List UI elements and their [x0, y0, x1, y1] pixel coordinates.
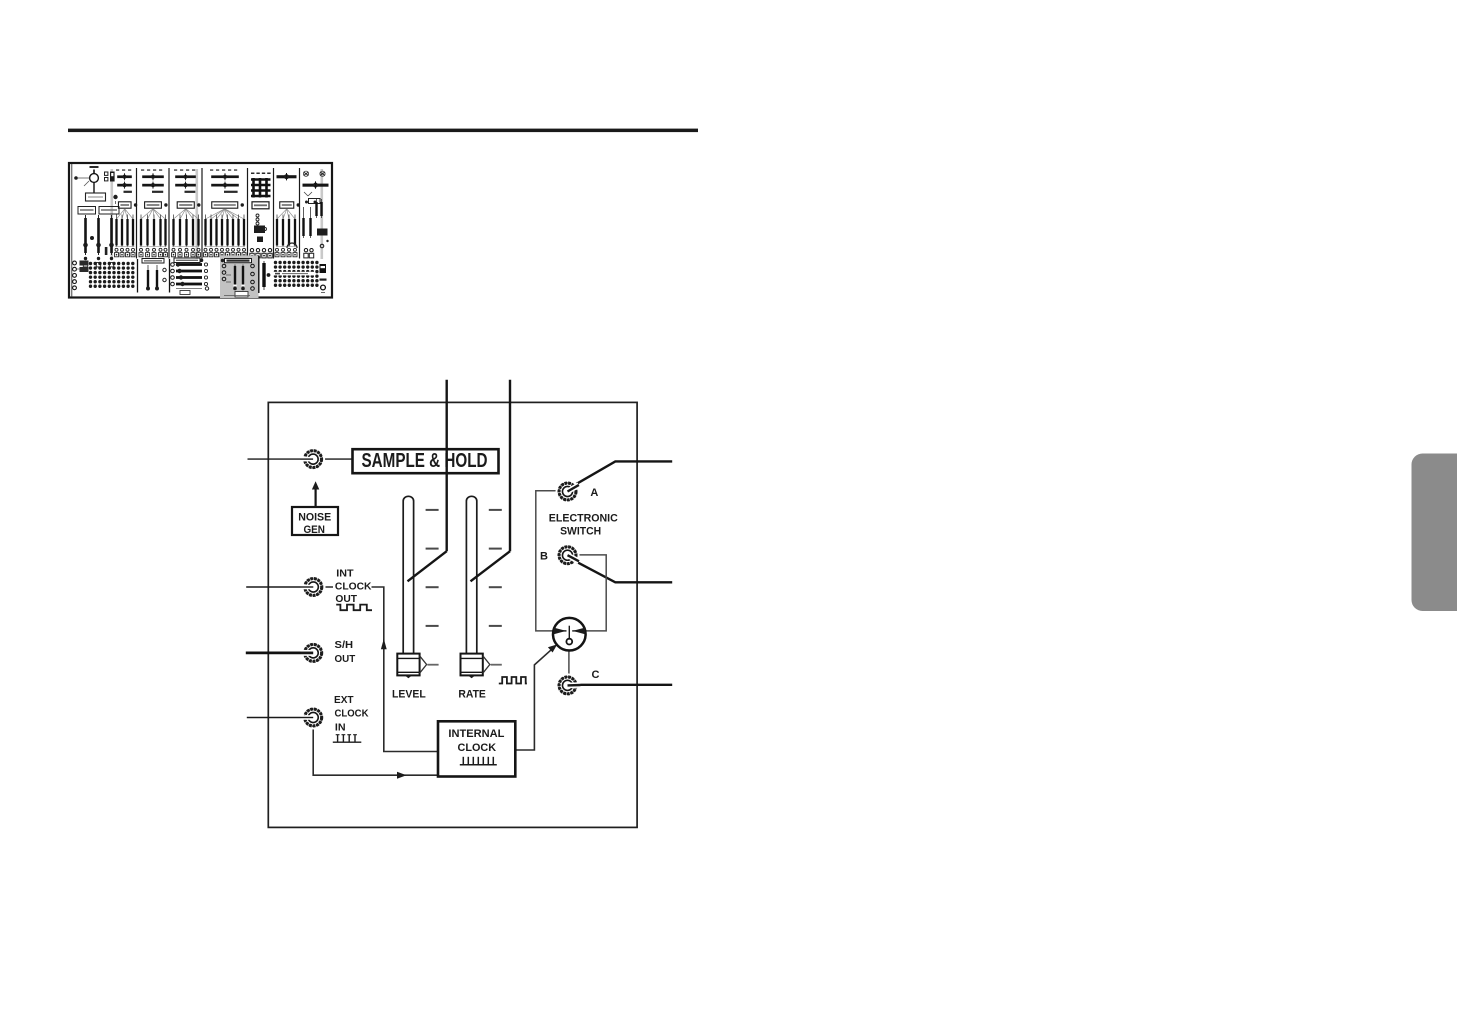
svg-text:RATE: RATE: [458, 688, 486, 700]
svg-text:GEN: GEN: [303, 524, 325, 536]
svg-text:INTERNAL: INTERNAL: [448, 728, 504, 740]
svg-text:SWITCH: SWITCH: [560, 525, 601, 537]
svg-text:CLOCK: CLOCK: [458, 742, 497, 754]
svg-text:C: C: [592, 669, 600, 681]
svg-text:IN: IN: [335, 722, 346, 733]
svg-text:S/H: S/H: [335, 640, 354, 651]
svg-text:SAMPLE & HOLD: SAMPLE & HOLD: [362, 450, 488, 472]
svg-text:EXT: EXT: [334, 695, 354, 706]
svg-text:ELECTRONIC: ELECTRONIC: [549, 512, 618, 524]
svg-text:CLOCK: CLOCK: [335, 582, 372, 593]
svg-text:LEVEL: LEVEL: [392, 688, 426, 700]
svg-text:CLOCK: CLOCK: [335, 708, 369, 719]
svg-text:INT: INT: [336, 568, 354, 579]
svg-text:OUT: OUT: [335, 654, 356, 665]
svg-text:NOISE: NOISE: [298, 511, 331, 523]
svg-text:A: A: [590, 487, 598, 499]
svg-text:B: B: [540, 551, 548, 563]
svg-text:OUT: OUT: [335, 594, 357, 605]
